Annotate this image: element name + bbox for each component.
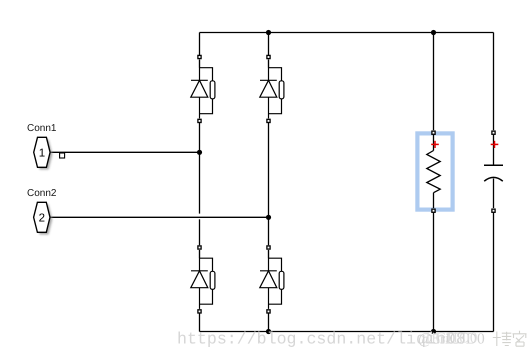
svg-text:Conn2: Conn2 bbox=[27, 188, 57, 199]
diode D4 with parallel snubber bbox=[260, 246, 284, 313]
wire column3 bottom drop bbox=[433, 213, 435, 332]
port square R top bbox=[432, 131, 435, 134]
watermark cjk glyph 2 bbox=[513, 331, 527, 346]
port square R bottom bbox=[432, 209, 435, 212]
connection port Conn2 bbox=[34, 202, 53, 234]
diode D1 with parallel snubber bbox=[191, 55, 215, 122]
node top rail junction at column2 bbox=[266, 30, 271, 35]
diode D2 with parallel snubber bbox=[260, 55, 284, 122]
svg-text:2: 2 bbox=[39, 213, 45, 225]
svg-text:1iCJ1O0: 1iCJ1O0 bbox=[424, 331, 477, 347]
node bottom rail junction at column2 bbox=[266, 329, 271, 334]
diode D3 with parallel snubber bbox=[191, 246, 215, 313]
wire column1 bottom drop bbox=[199, 314, 201, 332]
svg-text:1: 1 bbox=[39, 148, 45, 160]
wire column4 top drop bbox=[493, 33, 495, 131]
watermark url text bbox=[177, 330, 466, 349]
wire column1 top drop bbox=[199, 33, 201, 56]
watermark cjk glyph 1 bbox=[493, 332, 512, 347]
node A Conn1 junction bbox=[197, 150, 202, 155]
node bottom rail junction at column3 bbox=[431, 329, 436, 334]
wire column2 mid segment bbox=[268, 123, 270, 245]
wire bottom rail bbox=[200, 331, 494, 333]
wire column2 bottom drop bbox=[268, 314, 270, 332]
node top rail junction at column3 bbox=[431, 30, 436, 35]
polarity plus of capacitor C bbox=[491, 141, 499, 148]
port square C bottom bbox=[492, 209, 495, 212]
wire column3 top drop bbox=[433, 33, 435, 131]
label Conn1 bbox=[27, 123, 57, 134]
wire column1 mid segment upper bbox=[199, 123, 201, 214]
wire top rail bbox=[200, 32, 494, 34]
wire column1 mid segment lower bbox=[199, 219, 201, 245]
watermark csdn overlay text bbox=[418, 331, 485, 348]
label Conn2 bbox=[27, 188, 57, 199]
watermark csdn overlay ghost text bbox=[424, 331, 477, 347]
node B Conn2 junction bbox=[266, 215, 271, 220]
connection port Conn1 bbox=[34, 137, 65, 169]
svg-text:Conn1: Conn1 bbox=[27, 123, 57, 134]
wire column2 top drop bbox=[268, 33, 270, 56]
port square C top bbox=[492, 131, 495, 134]
selection highlight around load resistor bbox=[417, 133, 452, 209]
wire column4 bottom drop bbox=[493, 213, 495, 332]
resistor R load bbox=[427, 135, 440, 208]
polarity plus of resistor R bbox=[431, 141, 439, 148]
wire Conn2 to node B bbox=[50, 216, 269, 218]
capacitor C bbox=[484, 135, 503, 208]
wire Conn1 to node A bbox=[50, 151, 200, 153]
